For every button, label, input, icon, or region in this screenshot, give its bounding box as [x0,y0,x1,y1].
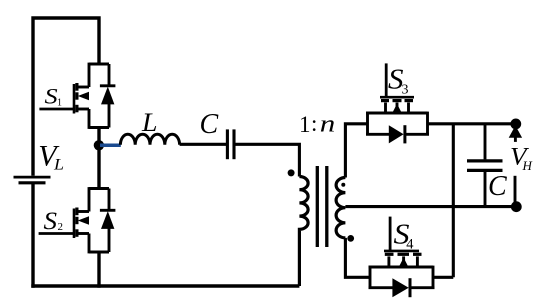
svg-text::: : [311,111,317,136]
svg-text:4: 4 [406,236,414,252]
polarity dot secondary top [341,183,345,187]
label S2 [44,208,64,235]
wire inductor to capacitor [180,143,226,146]
wire S3/S4 tie vertical [452,124,455,277]
label VL [38,140,64,174]
junction dot secondary bottom [347,235,354,242]
svg-text:S: S [45,84,58,109]
wire S1 top lead (in loop), S1-to-S2 vertical [97,128,100,190]
polarity dot primary [288,169,295,176]
svg-text:S: S [44,208,58,235]
inductor L [120,134,179,145]
label VH [510,143,533,173]
label S3 [388,64,409,97]
svg-text:C: C [488,171,507,202]
node A [94,140,104,150]
svg-text:H: H [522,158,533,173]
svg-text:2: 2 [58,221,64,233]
transformer T primary winding [299,177,308,287]
capacitor C (output) [467,124,503,207]
svg-text:1: 1 [299,112,311,137]
label S4 [394,219,415,253]
wire center tap rail (bottom output) [345,205,512,208]
battery VL [14,177,51,183]
svg-text:3: 3 [402,83,409,98]
svg-text:1: 1 [57,98,62,109]
transistor S3 [366,63,429,143]
transformer T secondary winding [336,178,345,238]
wire S2 bottom lead [97,252,100,288]
svg-text:C: C [200,109,219,140]
svg-text:n: n [320,111,336,137]
wire S3 right to + node [428,122,513,125]
voltage arrow VH [509,126,522,207]
wire bottom rail [31,284,299,288]
wire left rail lower [31,184,34,288]
svg-text:L: L [53,156,64,173]
transistor S4 [369,217,435,298]
wire capacitor to transformer primary [234,144,299,176]
svg-text:L: L [141,108,158,137]
transistor S1 [39,63,115,129]
wire (blue) node to inductor [100,144,121,148]
label S1 [45,84,63,109]
node + (top output) [510,119,521,130]
wire secondary bottom to S4 [345,238,370,277]
capacitor C (series) [227,129,234,159]
transformer core [317,166,327,247]
wire S4 right [433,276,453,279]
transistor S2 [39,187,116,253]
wire secondary top to S3 [345,124,367,178]
label 1:n [299,111,335,137]
wire top-left loop [33,18,99,176]
node - (bottom output) [511,201,522,212]
